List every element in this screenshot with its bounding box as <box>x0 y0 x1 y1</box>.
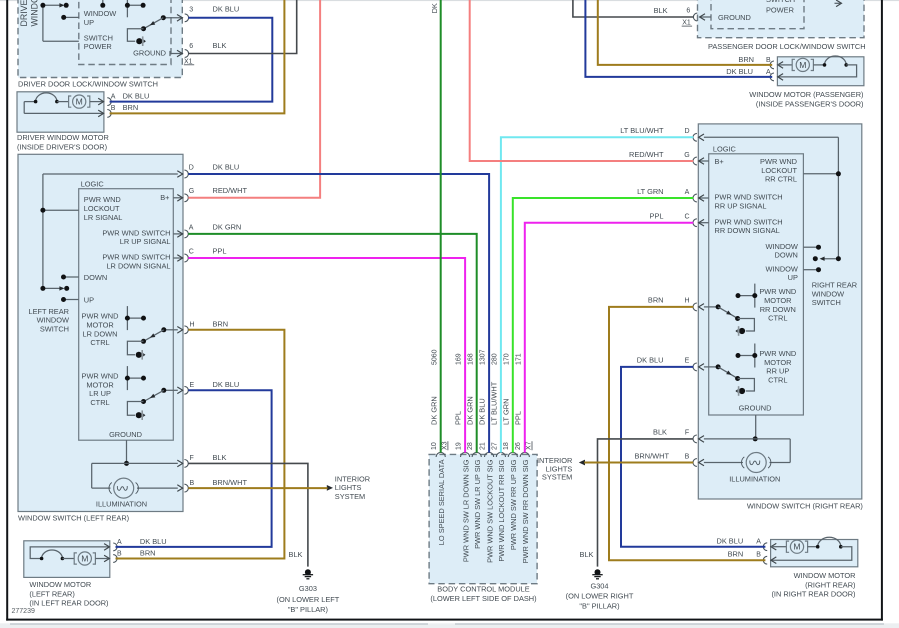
left switch lockout branch <box>43 209 79 211</box>
svg-text:171: 171 <box>515 353 522 365</box>
svg-text:G: G <box>189 188 194 195</box>
svg-text:LOGIC: LOGIC <box>713 144 737 153</box>
svg-text:1307: 1307 <box>480 349 487 365</box>
svg-text:WINDOW: WINDOW <box>29 0 39 27</box>
svg-text:BLK: BLK <box>289 550 303 559</box>
driver switch spare contact <box>102 0 104 6</box>
svg-text:B+: B+ <box>715 157 724 166</box>
svg-text:BRN/WHT: BRN/WHT <box>635 451 670 460</box>
wire PPL BCM 26 to right switch C <box>525 223 694 453</box>
svg-text:(IN LEFT REAR DOOR): (IN LEFT REAR DOOR) <box>29 598 108 607</box>
right switch pin H connector <box>699 304 704 311</box>
svg-text:PWR WND: PWR WND <box>82 312 119 321</box>
svg-text:UP: UP <box>788 273 798 282</box>
interior lights system right arrow <box>579 460 585 466</box>
right switch motor-up contact line <box>738 355 755 357</box>
left motor pin A loop <box>30 547 109 559</box>
svg-text:GROUND: GROUND <box>718 13 751 22</box>
right switch LOGIC box <box>709 154 804 415</box>
svg-text:CTRL: CTRL <box>768 375 787 384</box>
svg-text:PWR WND SWITCH: PWR WND SWITCH <box>715 193 783 202</box>
svg-text:D: D <box>189 164 194 171</box>
svg-text:DK BLU: DK BLU <box>478 398 487 425</box>
svg-text:10: 10 <box>431 442 438 450</box>
svg-text:LOCKOUT: LOCKOUT <box>84 204 120 213</box>
wire DK GRN left switch A to BCM 28 <box>188 234 476 453</box>
right switch pin D internal wire <box>704 136 839 138</box>
svg-text:PWR WND SW RR UP SIG: PWR WND SW RR UP SIG <box>509 459 518 550</box>
right motor symbol M <box>786 541 789 552</box>
svg-text:BRN/WHT: BRN/WHT <box>213 478 248 487</box>
right switch motor-down contact bar <box>754 284 756 308</box>
svg-text:MOTOR: MOTOR <box>764 296 791 305</box>
svg-text:B: B <box>766 57 771 64</box>
wire BRN/WHT left switch B to interior lights <box>188 487 327 489</box>
svg-text:RED/WHT: RED/WHT <box>629 150 664 159</box>
svg-text:SWITCH: SWITCH <box>812 298 841 307</box>
wire DK BLU driver pin3 to driver motor <box>110 18 273 102</box>
wire DK BLU right switch E to right motor A <box>621 367 765 547</box>
svg-text:CTRL: CTRL <box>768 314 787 323</box>
passenger motor loop <box>778 65 857 77</box>
BCM connector bumps <box>436 452 445 457</box>
right pin E stub <box>704 366 718 368</box>
window switch left rear box <box>18 154 183 511</box>
driver switch arm to pin3 <box>145 18 164 29</box>
left switch pin D internal wire <box>43 173 178 175</box>
left illumination lamp <box>114 478 134 498</box>
right ground vertical <box>755 415 757 439</box>
svg-text:X3: X3 <box>441 441 448 450</box>
driver switch bracket <box>127 29 143 42</box>
right motor pin B connector <box>771 557 776 564</box>
svg-text:A: A <box>111 93 116 100</box>
svg-text:X1: X1 <box>682 20 691 27</box>
wire BRN/WHT right switch B to interior lights <box>584 462 693 464</box>
right switch pin D connector <box>699 134 704 141</box>
svg-text:A: A <box>756 538 761 545</box>
svg-text:PWR WND SW RR DOWN SIG: PWR WND SW RR DOWN SIG <box>521 459 530 563</box>
driver motor pin A connector <box>98 98 103 105</box>
page top cut edge <box>0 0 899 1</box>
svg-text:RR CTRL: RR CTRL <box>765 175 797 184</box>
svg-text:E: E <box>190 382 195 389</box>
right bracket up-ctrl <box>738 379 755 392</box>
svg-text:(RIGHT REAR): (RIGHT REAR) <box>805 580 855 589</box>
svg-text:M: M <box>793 542 800 552</box>
right lamp loop <box>789 439 791 463</box>
right bracket down-ctrl <box>738 319 755 332</box>
svg-text:B: B <box>685 453 690 460</box>
svg-text:LOCKOUT: LOCKOUT <box>761 166 797 175</box>
svg-text:A: A <box>117 539 122 546</box>
right switch pin E connector <box>699 364 704 371</box>
right switch pin B connector <box>699 459 704 466</box>
left motor hump <box>42 550 63 559</box>
left switch motor-up contact bar <box>126 366 128 390</box>
passenger inner dashed box <box>711 0 804 29</box>
left switch pin B connector <box>177 485 182 492</box>
svg-text:UP: UP <box>84 295 94 304</box>
driver motor symbol M <box>69 96 72 107</box>
svg-text:DK BLU: DK BLU <box>213 380 240 389</box>
wire DK BLU left switch D to BCM 21 <box>188 174 489 453</box>
left switch motor-down contact bar <box>126 306 128 330</box>
left switch arm down-ctrl <box>145 330 164 341</box>
svg-text:ILLUMINATION: ILLUMINATION <box>729 475 780 484</box>
svg-text:BRN: BRN <box>648 296 664 305</box>
right lockout branch <box>803 173 838 175</box>
left switch pin E connector <box>177 387 182 394</box>
svg-text:LT BLU/WHT: LT BLU/WHT <box>490 381 499 425</box>
left switch pin C connector <box>173 257 182 259</box>
svg-text:UP: UP <box>84 18 94 27</box>
svg-text:B: B <box>756 552 761 559</box>
svg-text:DK: DK <box>430 3 439 13</box>
wire DK BLU to passenger motor A <box>585 0 772 77</box>
svg-text:LR DOWN SIGNAL: LR DOWN SIGNAL <box>106 261 170 270</box>
svg-text:PWR WND SWITCH: PWR WND SWITCH <box>102 253 170 262</box>
svg-text:DK BLU: DK BLU <box>637 356 664 365</box>
svg-text:(ON LOWER RIGHT: (ON LOWER RIGHT <box>566 592 634 601</box>
svg-text:SWITCH: SWITCH <box>40 325 69 334</box>
svg-text:GROUND: GROUND <box>109 430 142 439</box>
svg-text:A: A <box>189 224 194 231</box>
left switch pin A connector <box>173 233 182 235</box>
svg-text:PWR WND: PWR WND <box>759 287 796 296</box>
driver switch pin3 stub <box>163 17 182 19</box>
svg-text:B: B <box>117 550 122 557</box>
right switch wiper <box>821 258 838 260</box>
svg-text:G303: G303 <box>299 584 317 593</box>
wire LT GRN BCM 18 to right switch A <box>513 198 694 453</box>
svg-text:RR UP SIGNAL: RR UP SIGNAL <box>715 201 767 210</box>
right WINDOW UP contact <box>803 269 818 271</box>
svg-text:X7: X7 <box>526 441 533 450</box>
driver switch window-up contact <box>64 16 79 18</box>
left motor pin B connector <box>104 555 109 562</box>
svg-text:"B" PILLAR): "B" PILLAR) <box>288 605 328 614</box>
left momentary up-ctrl <box>136 412 142 418</box>
svg-text:PWR WND: PWR WND <box>760 157 797 166</box>
svg-text:LR SIGNAL: LR SIGNAL <box>84 213 123 222</box>
page border right <box>881 0 883 621</box>
svg-text:DOWN: DOWN <box>84 273 107 282</box>
svg-text:LR DOWN: LR DOWN <box>83 329 118 338</box>
svg-text:LT BLU/WHT: LT BLU/WHT <box>620 126 664 135</box>
left motor pin A connector <box>104 544 109 551</box>
svg-text:PWR WND SW LOCKOUT SIG: PWR WND SW LOCKOUT SIG <box>485 459 494 563</box>
svg-text:PWR WND SW LR DOWN SIG: PWR WND SW LR DOWN SIG <box>461 459 470 562</box>
left pin E stub <box>164 389 178 391</box>
svg-text:DRIVER: DRIVER <box>19 0 29 27</box>
svg-text:277239: 277239 <box>12 608 35 615</box>
right switch arm up-ctrl <box>718 367 737 378</box>
left pin H stub <box>164 329 178 331</box>
passenger motor pin A connector <box>778 74 783 81</box>
svg-text:27: 27 <box>491 442 498 450</box>
svg-text:C: C <box>684 214 689 221</box>
wire BLK right switch F to G304 <box>598 439 694 567</box>
svg-text:28: 28 <box>467 442 474 450</box>
left switch motor-down contact line <box>127 317 143 319</box>
passenger pin6 connector <box>700 16 711 18</box>
left switch DOWN contact <box>64 276 79 278</box>
wire BRN right switch H to right motor B <box>609 307 765 560</box>
svg-text:A: A <box>766 69 771 76</box>
svg-text:BRN: BRN <box>140 548 156 557</box>
wire RED/WHT left switch G up <box>188 0 320 198</box>
left switch pin D connector <box>177 171 182 178</box>
svg-text:H: H <box>684 298 689 305</box>
svg-text:F: F <box>190 455 194 462</box>
svg-text:GROUND: GROUND <box>133 49 166 58</box>
left bracket down-ctrl <box>127 341 143 355</box>
driver switch momentary contact <box>136 38 142 44</box>
right switch pin G connector <box>699 160 709 162</box>
left lamp loop <box>91 463 93 488</box>
bottom gray strip <box>0 623 899 628</box>
driver motor loop <box>23 102 25 114</box>
svg-text:PWR WND: PWR WND <box>84 195 121 204</box>
svg-text:LOGIC: LOGIC <box>81 179 105 188</box>
svg-text:M: M <box>799 60 806 70</box>
svg-text:WINDOW: WINDOW <box>84 9 116 18</box>
svg-text:SYSTEM: SYSTEM <box>542 472 572 481</box>
driver door lock/window switch box <box>18 0 182 78</box>
window motor left rear box <box>24 541 110 578</box>
svg-text:(LOWER LEFT SIDE OF DASH): (LOWER LEFT SIDE OF DASH) <box>430 594 536 603</box>
svg-text:6: 6 <box>189 43 193 50</box>
svg-text:(LEFT REAR): (LEFT REAR) <box>29 589 74 598</box>
svg-text:SYSTEM: SYSTEM <box>335 492 365 501</box>
svg-text:BLK: BLK <box>653 428 667 437</box>
svg-text:6: 6 <box>686 7 690 14</box>
right motor loop <box>771 547 852 561</box>
svg-text:SWITCH: SWITCH <box>766 0 795 4</box>
svg-text:DOWN: DOWN <box>774 251 797 260</box>
svg-text:INTERIOR: INTERIOR <box>335 474 370 483</box>
svg-text:C: C <box>189 248 194 255</box>
svg-text:LEFT REAR: LEFT REAR <box>28 307 69 316</box>
svg-text:MOTOR: MOTOR <box>764 358 791 367</box>
svg-text:BRN: BRN <box>738 55 754 64</box>
svg-text:DRIVER WINDOW MOTOR: DRIVER WINDOW MOTOR <box>17 133 109 142</box>
svg-text:PPL: PPL <box>513 411 522 425</box>
right switch arm down-ctrl <box>718 307 737 318</box>
svg-text:RR UP: RR UP <box>766 367 789 376</box>
pin 3 connector <box>177 15 182 22</box>
wire DK BLU left switch E to left motor A <box>116 390 272 547</box>
svg-text:DK BLU: DK BLU <box>213 4 240 13</box>
passenger cut pin stub <box>835 2 841 4</box>
svg-text:DK BLU: DK BLU <box>123 91 150 100</box>
svg-text:WINDOW SWITCH (RIGHT REAR): WINDOW SWITCH (RIGHT REAR) <box>747 502 863 511</box>
svg-text:SWITCH: SWITCH <box>84 33 113 42</box>
svg-text:WINDOW MOTOR: WINDOW MOTOR <box>794 571 856 580</box>
left bracket up-ctrl <box>127 402 143 416</box>
svg-text:(INSIDE PASSENGER'S DOOR): (INSIDE PASSENGER'S DOOR) <box>756 99 864 108</box>
svg-text:WINDOW: WINDOW <box>37 316 69 325</box>
svg-text:MOTOR: MOTOR <box>86 380 113 389</box>
svg-text:21: 21 <box>480 442 487 450</box>
svg-text:169: 169 <box>456 353 463 365</box>
svg-text:PWR WND SW LR UP SIG: PWR WND SW LR UP SIG <box>473 459 482 549</box>
svg-text:PWR WND: PWR WND <box>82 372 119 381</box>
driver ground arrow <box>169 51 171 56</box>
svg-text:F: F <box>685 430 689 437</box>
svg-text:WINDOW: WINDOW <box>765 242 797 251</box>
right motor pin A connector <box>771 543 776 550</box>
interior lights system left arrow <box>327 485 333 491</box>
wire BRN to passenger motor B <box>598 0 772 65</box>
svg-text:DK BLU: DK BLU <box>213 162 240 171</box>
svg-text:A: A <box>685 189 690 196</box>
driver motor hump <box>24 101 35 103</box>
svg-text:RR DOWN SIGNAL: RR DOWN SIGNAL <box>715 226 780 235</box>
svg-text:RED/WHT: RED/WHT <box>213 186 248 195</box>
right switch pin F connector <box>699 436 704 443</box>
svg-text:PWR WND: PWR WND <box>759 349 796 358</box>
svg-text:WINDOW: WINDOW <box>812 289 844 298</box>
right momentary up-ctrl <box>739 388 745 394</box>
ground G304 <box>595 569 601 575</box>
svg-text:168: 168 <box>467 353 474 365</box>
svg-text:PWR WND SWITCH: PWR WND SWITCH <box>102 228 170 237</box>
left switch UP contact <box>64 299 79 301</box>
svg-text:PPL: PPL <box>213 246 227 255</box>
driver switch contact bar <box>126 0 128 17</box>
page border bottom <box>6 619 883 621</box>
right switch pin C connector <box>699 222 709 224</box>
svg-text:BRN: BRN <box>728 550 744 559</box>
driver switch wiper arm <box>43 4 63 6</box>
ground G303 <box>305 569 311 575</box>
wire BLK left switch F to G303 <box>188 463 308 566</box>
left switch wiper <box>43 287 63 289</box>
svg-text:H: H <box>190 322 195 329</box>
right switch pin A connector <box>699 197 709 199</box>
left F line <box>92 462 178 464</box>
driver switch inner dashed box <box>79 0 171 65</box>
svg-text:CTRL: CTRL <box>90 398 109 407</box>
left switch motor-up contact line <box>127 377 143 379</box>
left switch pin H connector <box>177 327 182 334</box>
svg-text:(ON LOWER LEFT: (ON LOWER LEFT <box>276 595 339 604</box>
svg-text:POWER: POWER <box>84 42 112 51</box>
right pin H stub <box>704 306 718 308</box>
svg-text:DK BLU: DK BLU <box>716 536 743 545</box>
wire BRN left switch H to left motor B <box>116 330 285 559</box>
svg-text:WINDOW SWITCH (LEFT REAR): WINDOW SWITCH (LEFT REAR) <box>18 514 129 523</box>
wire BLK driver pin6 up <box>188 0 296 54</box>
svg-text:RIGHT REAR: RIGHT REAR <box>812 281 857 290</box>
svg-text:LO SPEED SERIAL DATA: LO SPEED SERIAL DATA <box>437 459 446 545</box>
right F line <box>704 438 790 440</box>
wire PPL left switch C to BCM 19 <box>188 258 465 453</box>
svg-text:BODY CONTROL MODULE: BODY CONTROL MODULE <box>437 585 529 594</box>
svg-text:B: B <box>190 480 195 487</box>
svg-text:18: 18 <box>503 442 510 450</box>
svg-text:M: M <box>81 553 88 563</box>
svg-text:POWER: POWER <box>766 5 794 14</box>
right switch motor-up contact bar <box>754 344 756 368</box>
right switch bus <box>837 137 839 258</box>
passenger motor pin B connector <box>778 62 783 69</box>
svg-text:WINDOW: WINDOW <box>765 264 797 273</box>
left momentary down-ctrl <box>136 352 142 358</box>
svg-text:B: B <box>111 105 116 112</box>
right switch motor-down contact line <box>738 295 755 297</box>
window motor passenger box <box>777 57 864 86</box>
svg-text:PPL: PPL <box>650 212 664 221</box>
passenger motor hump <box>813 64 824 66</box>
svg-text:5060: 5060 <box>431 349 438 365</box>
svg-text:DK BLU: DK BLU <box>140 537 167 546</box>
wire BRN to driver motor <box>110 0 285 113</box>
left switch bus <box>42 174 44 288</box>
driver switch contact line <box>127 4 143 6</box>
svg-text:280: 280 <box>492 353 499 365</box>
passenger motor symbol M <box>792 59 795 70</box>
svg-text:(IN RIGHT REAR DOOR): (IN RIGHT REAR DOOR) <box>771 590 855 599</box>
svg-text:170: 170 <box>503 353 510 365</box>
svg-text:BLK: BLK <box>654 6 668 15</box>
svg-text:DK GRN: DK GRN <box>465 396 474 425</box>
left switch pin F connector <box>177 460 182 467</box>
svg-text:RR DOWN: RR DOWN <box>760 305 796 314</box>
right illumination lamp <box>746 453 766 473</box>
window motor right rear box <box>771 540 858 567</box>
wire LT BLU/WHT BCM 27 to right switch D <box>501 137 693 452</box>
svg-text:G304: G304 <box>590 582 608 591</box>
svg-text:BLK: BLK <box>213 453 227 462</box>
svg-text:LT GRN: LT GRN <box>637 187 663 196</box>
svg-text:(INSIDE DRIVER'S DOOR): (INSIDE DRIVER'S DOOR) <box>17 142 107 151</box>
svg-text:PWR WND SWITCH: PWR WND SWITCH <box>715 217 783 226</box>
svg-text:BRN: BRN <box>213 320 229 329</box>
svg-text:M: M <box>76 97 83 107</box>
wire BLK passenger pin6 up <box>573 0 693 17</box>
svg-text:LR UP SIGNAL: LR UP SIGNAL <box>120 237 171 246</box>
svg-text:DK GRN: DK GRN <box>213 222 242 231</box>
right WINDOW DOWN contact <box>803 246 818 248</box>
svg-text:PASSENGER DOOR LOCK/WINDOW SWI: PASSENGER DOOR LOCK/WINDOW SWITCH <box>708 42 866 51</box>
driver window motor box <box>17 92 104 132</box>
left switch LOGIC box <box>79 189 174 441</box>
svg-text:19: 19 <box>456 442 463 450</box>
right momentary down-ctrl <box>739 328 745 334</box>
svg-text:G: G <box>684 152 689 159</box>
svg-text:WINDOW MOTOR (PASSENGER): WINDOW MOTOR (PASSENGER) <box>749 90 863 99</box>
driver motor pin B connector <box>98 110 103 117</box>
svg-text:DK BLU: DK BLU <box>726 67 753 76</box>
svg-text:X1: X1 <box>184 58 193 65</box>
svg-text:MOTOR: MOTOR <box>86 321 113 330</box>
svg-text:B+: B+ <box>160 193 169 202</box>
svg-text:DRIVER DOOR LOCK/WINDOW SWITCH: DRIVER DOOR LOCK/WINDOW SWITCH <box>18 80 158 89</box>
wire RED/WHT right switch G up <box>470 0 694 161</box>
svg-text:3: 3 <box>189 6 193 13</box>
left switch arm up-ctrl <box>145 390 164 401</box>
svg-text:WINDOW MOTOR: WINDOW MOTOR <box>29 580 91 589</box>
passenger door lock/window switch box <box>698 0 865 38</box>
svg-text:LT GRN: LT GRN <box>501 399 510 425</box>
svg-text:E: E <box>685 358 690 365</box>
wire DK GRN serial data BCM 10 <box>440 0 442 453</box>
page border left <box>6 0 8 621</box>
svg-text:26: 26 <box>515 442 522 450</box>
